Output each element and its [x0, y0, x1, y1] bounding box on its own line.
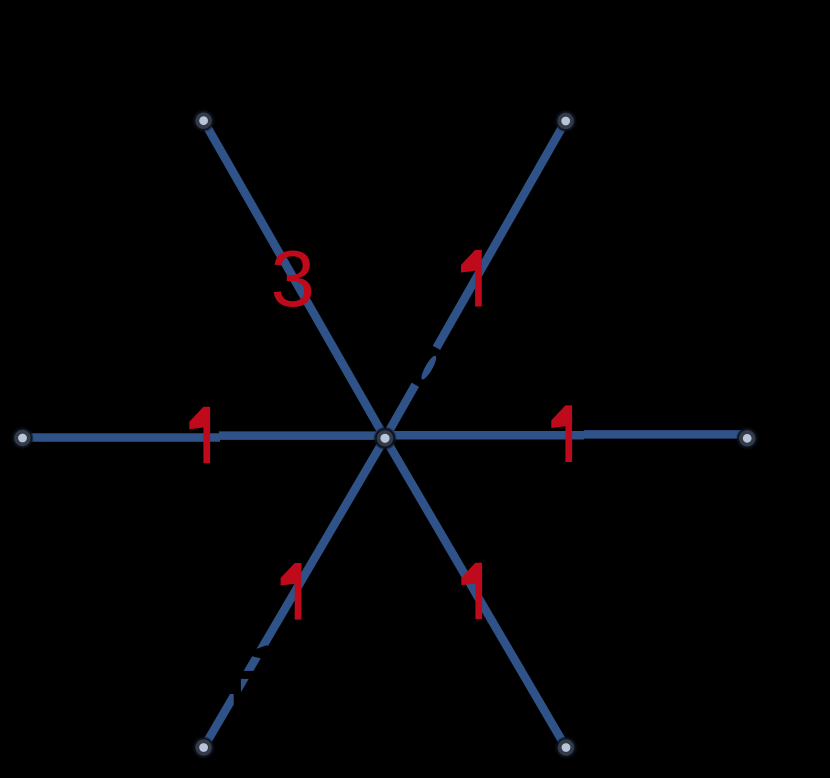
node top-right	[554, 110, 577, 133]
label weight 1 (bottom-right edge)	[461, 563, 482, 620]
label weight 1 (top-right edge)	[461, 250, 482, 307]
node top-left	[192, 109, 215, 132]
wire: edge center to top-right node	[385, 121, 566, 438]
node right	[736, 427, 759, 450]
node center	[373, 426, 397, 450]
node left	[11, 427, 34, 450]
wire: edge center to top-left node	[204, 121, 385, 438]
label weight 1 (left edge)	[189, 407, 210, 464]
node bottom-left	[192, 736, 215, 759]
wire: edge center to right node (two segments with step)	[385, 431, 584, 440]
node bottom-right	[555, 736, 578, 759]
svg-text:3: 3	[271, 234, 315, 323]
hidden black glyph (loop with tail) occluding top-right edge	[411, 345, 442, 388]
label weight 1 (right edge)	[551, 405, 572, 462]
hidden black glyph strokes occluding bottom-left edge	[225, 645, 271, 703]
wire: edge center to left node (two segments with step)	[219, 431, 385, 440]
label weight 1 (bottom-left edge)	[281, 563, 302, 620]
wire: edge center to bottom-right node	[385, 438, 566, 748]
wire: edge center to bottom-left node	[204, 438, 385, 748]
